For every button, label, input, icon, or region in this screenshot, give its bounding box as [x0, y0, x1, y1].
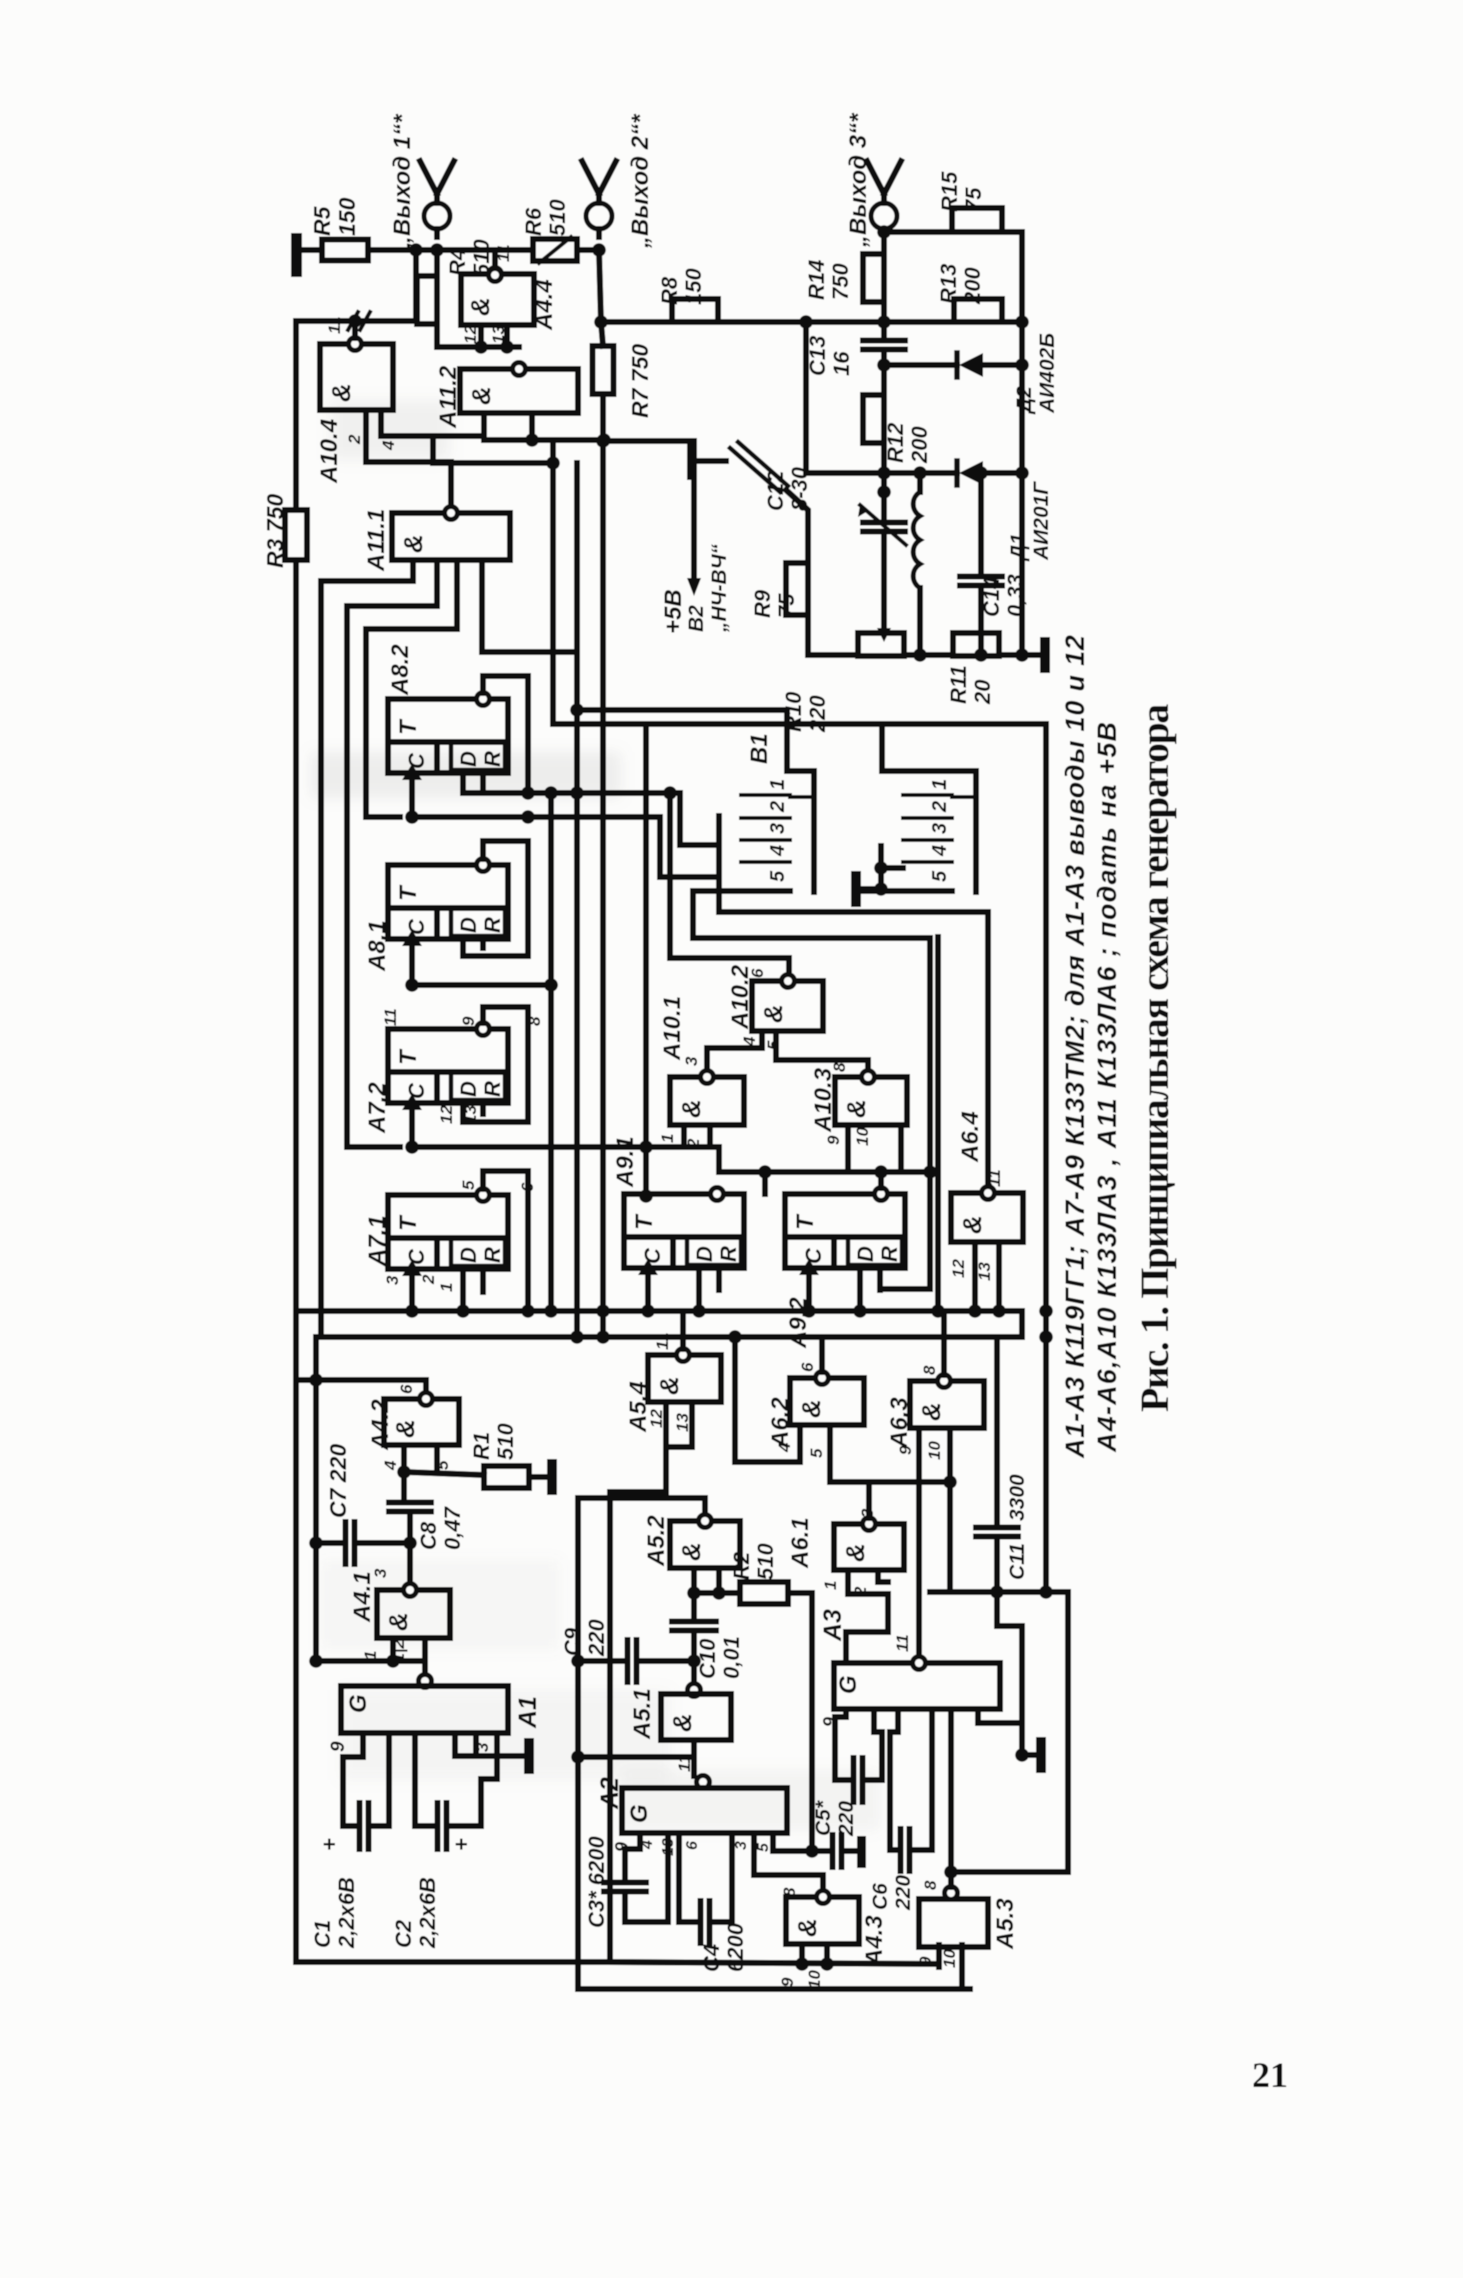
svg-text:200: 200 [907, 426, 932, 464]
svg-text:А8.2: А8.2 [387, 644, 414, 696]
gate A11.2 [460, 369, 578, 413]
svg-text:C: C [404, 1082, 429, 1099]
svg-text:&: & [796, 1399, 826, 1418]
rail y938 down right side [693, 891, 930, 1289]
rail below A11.2 [484, 437, 604, 443]
svg-text:R7 750: R7 750 [627, 344, 653, 418]
gate A10.4 [320, 344, 393, 410]
diode D2 [954, 353, 960, 377]
verticals x553 x577 from A11.2 area [550, 440, 556, 463]
vertical x646 riser [643, 724, 649, 1196]
resistor R2 [740, 1582, 788, 1604]
bottom rail y1989 [578, 1986, 962, 1992]
wire A6.3 bubble riser [941, 1311, 947, 1375]
flip-flop A7.1 [388, 1195, 508, 1269]
svg-text:R14: R14 [804, 260, 829, 300]
svg-text:20: 20 [970, 679, 995, 705]
svg-text:0,01: 0,01 [719, 1636, 744, 1679]
svg-text:5: 5 [929, 870, 951, 882]
resistor R3 [285, 510, 307, 560]
svg-text:T: T [631, 1213, 658, 1230]
clock triangle A7.2 [402, 1094, 422, 1110]
svg-text:R: R [480, 751, 505, 767]
svg-text:А1-А3 К119ГГ1; А7-А9 К133: А1-А3 К119ГГ1; А7-А9 К133ТМ2; для А1-А3 … [1060, 634, 1090, 1459]
svg-text:5: 5 [459, 1180, 478, 1190]
svg-text:&: & [466, 386, 496, 405]
bottom rail y1963 [610, 1962, 939, 1964]
capacitor C5 at A2 [830, 1835, 836, 1867]
svg-text:А10.3: А10.3 [810, 1067, 837, 1133]
DR stubs A9.2 [857, 1268, 863, 1311]
svg-text:А3: А3 [819, 1609, 847, 1642]
svg-text:R5: R5 [309, 205, 335, 236]
wire pin row to R1 [404, 1472, 484, 1475]
svg-text:А6.2: А6.2 [767, 1397, 794, 1449]
pins 1 2 A6.1 [848, 1570, 888, 1594]
long rail y1311 [296, 1308, 1022, 1314]
svg-text:А2: А2 [596, 1777, 624, 1810]
svg-text:2: 2 [419, 1274, 438, 1285]
svg-text:В2: В2 [685, 605, 708, 632]
capacitor C8 [401, 1472, 407, 1497]
wire Vyhod2 junction down [577, 247, 599, 253]
ground right of R11 [999, 652, 1040, 658]
left bus R3 column upper [293, 321, 299, 510]
svg-text:9: 9 [896, 1445, 915, 1455]
Q loop A7.2 down to DR rail [463, 1007, 528, 1122]
gate A11.1 [392, 513, 510, 560]
ground at switch B2 [687, 444, 697, 480]
svg-text:АИ201Г: АИ201Г [1030, 481, 1053, 561]
pins A4.1 down to A1 [390, 1638, 396, 1661]
svg-text:6: 6 [748, 968, 767, 978]
enclosure A2A3 left [578, 1498, 970, 1989]
svg-text:3: 3 [371, 1568, 390, 1578]
resistor R8 [672, 299, 718, 322]
svg-text:А6.1: А6.1 [787, 1517, 814, 1569]
rail y1876 to A5.3 [951, 1869, 1068, 1875]
svg-text:6: 6 [684, 1841, 701, 1850]
wire R15 to right bus corner [1002, 232, 1022, 655]
gate A5.2 [670, 1521, 740, 1568]
right bus x1044 [1043, 724, 1049, 1592]
svg-text:C: C [640, 1247, 665, 1264]
svg-text:А6.4: А6.4 [957, 1111, 984, 1163]
resistor R6 with slash [533, 239, 577, 261]
svg-text:C: C [404, 1248, 429, 1265]
svg-text:А11.1: А11.1 [363, 509, 390, 572]
wire R4 to gate pins rail [437, 324, 519, 347]
resistor R9 [786, 563, 808, 615]
gate A6.2 [790, 1378, 864, 1425]
svg-text:11: 11 [985, 1169, 1004, 1187]
svg-text:R11: R11 [946, 665, 971, 704]
svg-text:510: 510 [545, 199, 570, 236]
svg-text:R: R [480, 917, 505, 933]
svg-text:3: 3 [473, 1742, 492, 1752]
wire pin11 riser [492, 250, 498, 269]
svg-text:А4-А6,А10 К133ЛА3 , А11 К: А4-А6,А10 К133ЛА3 , А11 К133ЛА6 ; подать… [1092, 721, 1122, 1453]
resistor R4 [417, 276, 437, 324]
A3 right wire to ground [978, 1709, 1022, 1723]
gate A6.3 [910, 1381, 984, 1428]
svg-text:R13: R13 [936, 264, 961, 304]
capacitor C10 [691, 1593, 697, 1616]
svg-text:C3* 6200: C3* 6200 [584, 1835, 609, 1928]
loop wire left of R14 column [803, 322, 809, 473]
svg-text:D: D [456, 751, 481, 767]
svg-text:D: D [456, 917, 481, 933]
scan smudge bands [311, 400, 880, 1830]
wire C8 to A4.1 [407, 1543, 413, 1586]
svg-text:C11: C11 [1006, 1543, 1029, 1580]
gate A4.3 [786, 1897, 859, 1944]
svg-text:150: 150 [681, 268, 706, 305]
svg-text:А4.4: А4.4 [531, 279, 558, 331]
gate A5.1 [661, 1694, 731, 1740]
svg-text:R3 750: R3 750 [262, 494, 288, 568]
svg-text:G: G [626, 1804, 653, 1823]
A2 pin5 wire right [773, 1833, 812, 1851]
svg-text:13: 13 [673, 1413, 692, 1432]
svg-text:11: 11 [381, 1008, 400, 1026]
svg-text:1: 1 [821, 1581, 840, 1590]
rail to R13 [884, 319, 954, 325]
svg-text:5: 5 [755, 1842, 772, 1852]
svg-text:3: 3 [682, 1056, 701, 1066]
DR stubs A7.2 [460, 1103, 466, 1122]
wire R13 to right bus [1002, 319, 1022, 325]
svg-text:2: 2 [345, 434, 364, 445]
DR stubs A7.1 to rail1311 [460, 1269, 466, 1311]
rail y322 to R8 [601, 319, 672, 325]
svg-text:„Выход 1“*: „Выход 1“* [389, 113, 416, 249]
svg-text:5: 5 [767, 870, 789, 882]
svg-text:+5В: +5В [660, 589, 687, 634]
rail y365 to D2 [884, 362, 957, 368]
svg-text:&: & [676, 1542, 706, 1561]
svg-text:8: 8 [920, 1365, 939, 1375]
output bubble A7.1 [477, 1189, 490, 1202]
flip-flop A9.1 [624, 1194, 744, 1268]
svg-text:R: R [480, 1247, 505, 1263]
rail y1172 [719, 1169, 930, 1175]
svg-text:6: 6 [798, 1362, 817, 1372]
svg-text:75: 75 [774, 593, 799, 618]
svg-text:T: T [792, 1213, 819, 1230]
wiper arrow to R10 [881, 560, 887, 630]
wire rail1592 zigzag down [997, 1592, 1022, 1755]
rail y817 [412, 817, 719, 877]
svg-text:8: 8 [830, 1062, 849, 1072]
svg-text:11: 11 [893, 1634, 912, 1652]
A11.1 pin stubs to staircase [410, 560, 416, 581]
pins 9 10 A5.3 [936, 1945, 942, 1967]
svg-text:„НЧ-ВЧ“: „НЧ-ВЧ“ [708, 543, 731, 633]
svg-text:D: D [456, 1081, 481, 1097]
wire A5.4 bubble riser [680, 1311, 686, 1349]
pins 4 5 A10.2 [707, 1031, 762, 1071]
wire connector R to A10.2 [881, 865, 903, 871]
svg-text:D: D [853, 1246, 878, 1262]
flip-flop A8.1 [388, 865, 508, 939]
ground at connector R [851, 871, 861, 907]
svg-text:4: 4 [740, 1036, 759, 1047]
svg-text:R: R [480, 1081, 505, 1097]
wire C12 to potentiometer arrow [881, 532, 887, 560]
svg-text:&: & [383, 1612, 413, 1631]
svg-text:11: 11 [325, 316, 344, 334]
svg-text:T: T [395, 1048, 422, 1065]
resistor R11 [953, 633, 999, 656]
potentiometer R10 [858, 633, 904, 656]
svg-text:6: 6 [397, 1384, 416, 1394]
svg-text:3: 3 [767, 823, 789, 834]
rail y912 to A6.4 bubble [719, 891, 988, 1187]
svg-text:&: & [654, 1376, 684, 1395]
wire A6.3 pin10 down [947, 1452, 953, 1592]
svg-text:9: 9 [916, 1956, 935, 1966]
svg-text:T: T [395, 884, 422, 901]
svg-text:+: + [449, 1838, 474, 1851]
svg-text:&: & [792, 1918, 822, 1937]
svg-text:&: & [667, 1713, 697, 1732]
gate A5.4 [648, 1355, 721, 1402]
svg-text:&: & [465, 297, 495, 316]
connector B1 right block [878, 846, 884, 891]
pin 4 A10.4 wire to A11.2 rail [381, 410, 484, 436]
pins 9 10 A4.3 [799, 1944, 805, 1965]
capacitor C4 loop [679, 1833, 700, 1922]
capacitor C2 loop [415, 1733, 437, 1826]
connector R riser [882, 724, 976, 771]
svg-text:А10.4: А10.4 [316, 419, 343, 484]
svg-text:5: 5 [807, 1448, 826, 1458]
staircase wire L2 [321, 581, 413, 1337]
left bus R3 column lower [293, 560, 299, 1311]
svg-text:C: C [404, 752, 429, 769]
A3 pin5 long stub to A5.3 [948, 1709, 954, 1872]
connector R tongue [973, 771, 979, 892]
wire R12 to rail473 [881, 443, 887, 473]
wire Vyhod1 rail [368, 247, 533, 253]
svg-text:C9: C9 [560, 1627, 585, 1656]
svg-text:D: D [692, 1246, 717, 1262]
svg-text:&: & [326, 383, 356, 402]
wire bus rail to A1 bubble [316, 1658, 393, 1664]
svg-text:1: 1 [767, 779, 789, 790]
staircase wire L3 [347, 606, 437, 1147]
svg-text:C: C [404, 918, 429, 935]
svg-text:9: 9 [328, 1741, 349, 1752]
svg-text:C5*: C5* [812, 1800, 835, 1836]
svg-text:„Выход 2“*: „Выход 2“* [627, 113, 654, 249]
Q loop A8.2 to rail793 [483, 676, 528, 793]
svg-text:1: 1 [658, 1134, 677, 1143]
resistor R13 [954, 299, 1002, 322]
rail y473 [806, 470, 957, 476]
pins 12 13 A5.4 [663, 1402, 669, 1492]
pins 9 10 A10.3 [845, 1125, 851, 1172]
svg-text:T: T [395, 718, 422, 735]
svg-text:А11.2: А11.2 [435, 365, 462, 429]
svg-text:3: 3 [733, 1841, 750, 1850]
svg-text:C10: C10 [695, 1638, 720, 1679]
wire circle1 to R4 [434, 250, 440, 276]
resistor R7 on long bus [601, 322, 603, 346]
svg-text:R6: R6 [521, 207, 546, 236]
pins 4 5 A6.2 [735, 1425, 800, 1462]
svg-text:12: 12 [437, 1105, 456, 1124]
capacitor C11 [994, 1337, 1000, 1522]
svg-text:А10.1: А10.1 [659, 996, 686, 1061]
svg-text:C6: C6 [869, 1883, 892, 1910]
A2 pin3 wire to A4.3 [754, 1833, 823, 1891]
gate A10.3 [835, 1077, 907, 1125]
pins A5.2 to R2 node [691, 1568, 697, 1593]
clock triangle A7.1 [402, 1260, 422, 1276]
svg-text:8: 8 [921, 1880, 940, 1890]
svg-text:&: & [916, 1402, 946, 1421]
resistor R1 [484, 1466, 529, 1488]
svg-text:C4: C4 [699, 1944, 724, 1972]
output bubble A7.2 [477, 1023, 490, 1036]
right bus bottom connection [1065, 1592, 1071, 1872]
cross vertical x551 [548, 793, 554, 1311]
svg-text:&: & [840, 1543, 870, 1562]
output connector Vyhod1 [424, 203, 450, 229]
DR stubs A9.1 [696, 1268, 702, 1311]
gate A10.2 [752, 981, 823, 1031]
capacitor C6 loop under A3 [890, 1709, 898, 1850]
vertical x938 riser to connector [935, 937, 941, 1311]
long rail y1337 [321, 1334, 997, 1340]
connector L tongue [811, 771, 817, 892]
svg-text:+: + [317, 1838, 342, 1851]
capacitor C14 [978, 473, 984, 574]
wire A6.1 pins loop [846, 1594, 888, 1663]
svg-text:150: 150 [334, 197, 360, 236]
svg-text:А4.2: А4.2 [367, 1399, 394, 1451]
svg-text:10: 10 [925, 1441, 944, 1460]
rail y793 [463, 793, 719, 845]
svg-text:&: & [758, 1004, 788, 1023]
+5V arrow [604, 438, 694, 444]
DR stubs A8.1 [460, 939, 466, 956]
wire R10 left to R9 [808, 652, 858, 658]
svg-text:220: 220 [835, 1801, 858, 1837]
svg-text:R15: R15 [937, 171, 962, 212]
gate A4.2 [384, 1399, 459, 1445]
svg-text:0,33: 0,33 [1003, 574, 1028, 617]
svg-text:2: 2 [684, 1138, 703, 1149]
clock rail y1147 [412, 1144, 646, 1150]
svg-text:А5.1: А5.1 [629, 1688, 656, 1740]
capacitor C7 [316, 1540, 345, 1546]
svg-text:4: 4 [379, 440, 398, 451]
pin 11 A5.1 to A2 [691, 1740, 697, 1776]
ground near R5 [291, 233, 302, 277]
enclosure A1 block [296, 1311, 610, 1962]
svg-text:Д1: Д1 [1007, 533, 1030, 562]
svg-text:4: 4 [639, 1840, 656, 1850]
svg-text:&: & [390, 1419, 420, 1438]
svg-text:А6.3: А6.3 [886, 1397, 913, 1449]
gate A6.1 [834, 1524, 904, 1570]
Q loop A7.1 down to rail1311 [483, 1171, 528, 1311]
svg-text:D: D [456, 1247, 481, 1263]
long bus from R7 down [600, 394, 606, 1337]
gate A4.1 [377, 1590, 450, 1638]
svg-text:А9.1: А9.1 [612, 1136, 639, 1188]
svg-text:Рис. 1. Принципиальная схема г: Рис. 1. Принципиальная схема генератора [1132, 704, 1177, 1412]
pins 4 5 A4.2 [401, 1445, 407, 1472]
wire Vyhod3 junction [881, 229, 887, 254]
break marks [348, 312, 358, 330]
svg-text:9: 9 [778, 1977, 797, 1987]
wire A6.1 bubble riser [866, 1482, 872, 1518]
flip-flop A7.2 [388, 1029, 508, 1103]
svg-text:4: 4 [381, 1460, 400, 1471]
svg-text:G: G [835, 1675, 862, 1694]
svg-text:„Выход 3“*: „Выход 3“* [845, 112, 872, 248]
svg-text:12: 12 [647, 1409, 666, 1428]
DR stubs A8.2 [460, 773, 466, 793]
pins 1 2 A10.1 [681, 1125, 687, 1147]
ground rail y655 [904, 652, 953, 658]
Q loop A8.1 down to DR rail [463, 841, 528, 956]
wire to left bus with break [298, 250, 416, 321]
svg-text:200: 200 [960, 267, 985, 305]
clock triangle A8.1 [402, 930, 422, 946]
wire R2 right down to A2 area [788, 1593, 812, 1851]
svg-text:12: 12 [949, 1259, 968, 1278]
svg-text:R: R [877, 1246, 902, 1262]
svg-text:4: 4 [929, 845, 951, 857]
svg-text:11: 11 [653, 1332, 672, 1350]
stub wires into connector L [680, 842, 719, 848]
resistor R14 [863, 254, 884, 302]
resistor R12 [881, 365, 887, 395]
svg-text:0,47: 0,47 [440, 1505, 465, 1550]
capacitor C9 [578, 1658, 627, 1664]
svg-text:R9: R9 [750, 589, 775, 618]
svg-text:13: 13 [489, 325, 508, 344]
clock triangle A9.2 [799, 1259, 819, 1275]
svg-text:C1: C1 [310, 1920, 335, 1948]
svg-text:T: T [395, 1214, 422, 1231]
svg-text:510: 510 [753, 1543, 778, 1580]
svg-text:10: 10 [940, 1949, 959, 1968]
svg-text:C7 220: C7 220 [325, 1444, 351, 1518]
svg-text:R8: R8 [657, 276, 682, 305]
left bus second column [313, 1337, 319, 1661]
svg-text:C14: C14 [979, 577, 1004, 617]
svg-text:А5.3: А5.3 [992, 1898, 1019, 1950]
svg-text:C8: C8 [416, 1521, 441, 1550]
svg-text:21: 21 [1252, 2055, 1288, 2095]
wire C12 column down [881, 473, 887, 520]
switch B2 arm [730, 448, 780, 492]
svg-text:R: R [716, 1246, 741, 1262]
clock rail y985 to x551 [412, 982, 551, 988]
rail y724 to connector R tongue [553, 721, 1046, 727]
pin stubs 12 13 A4.4 [478, 325, 484, 347]
svg-text:C: C [801, 1247, 826, 1264]
svg-text:А4.1: А4.1 [349, 1571, 376, 1623]
pin stubs below A11.2 [481, 413, 487, 440]
svg-text:3300: 3300 [1006, 1474, 1029, 1521]
